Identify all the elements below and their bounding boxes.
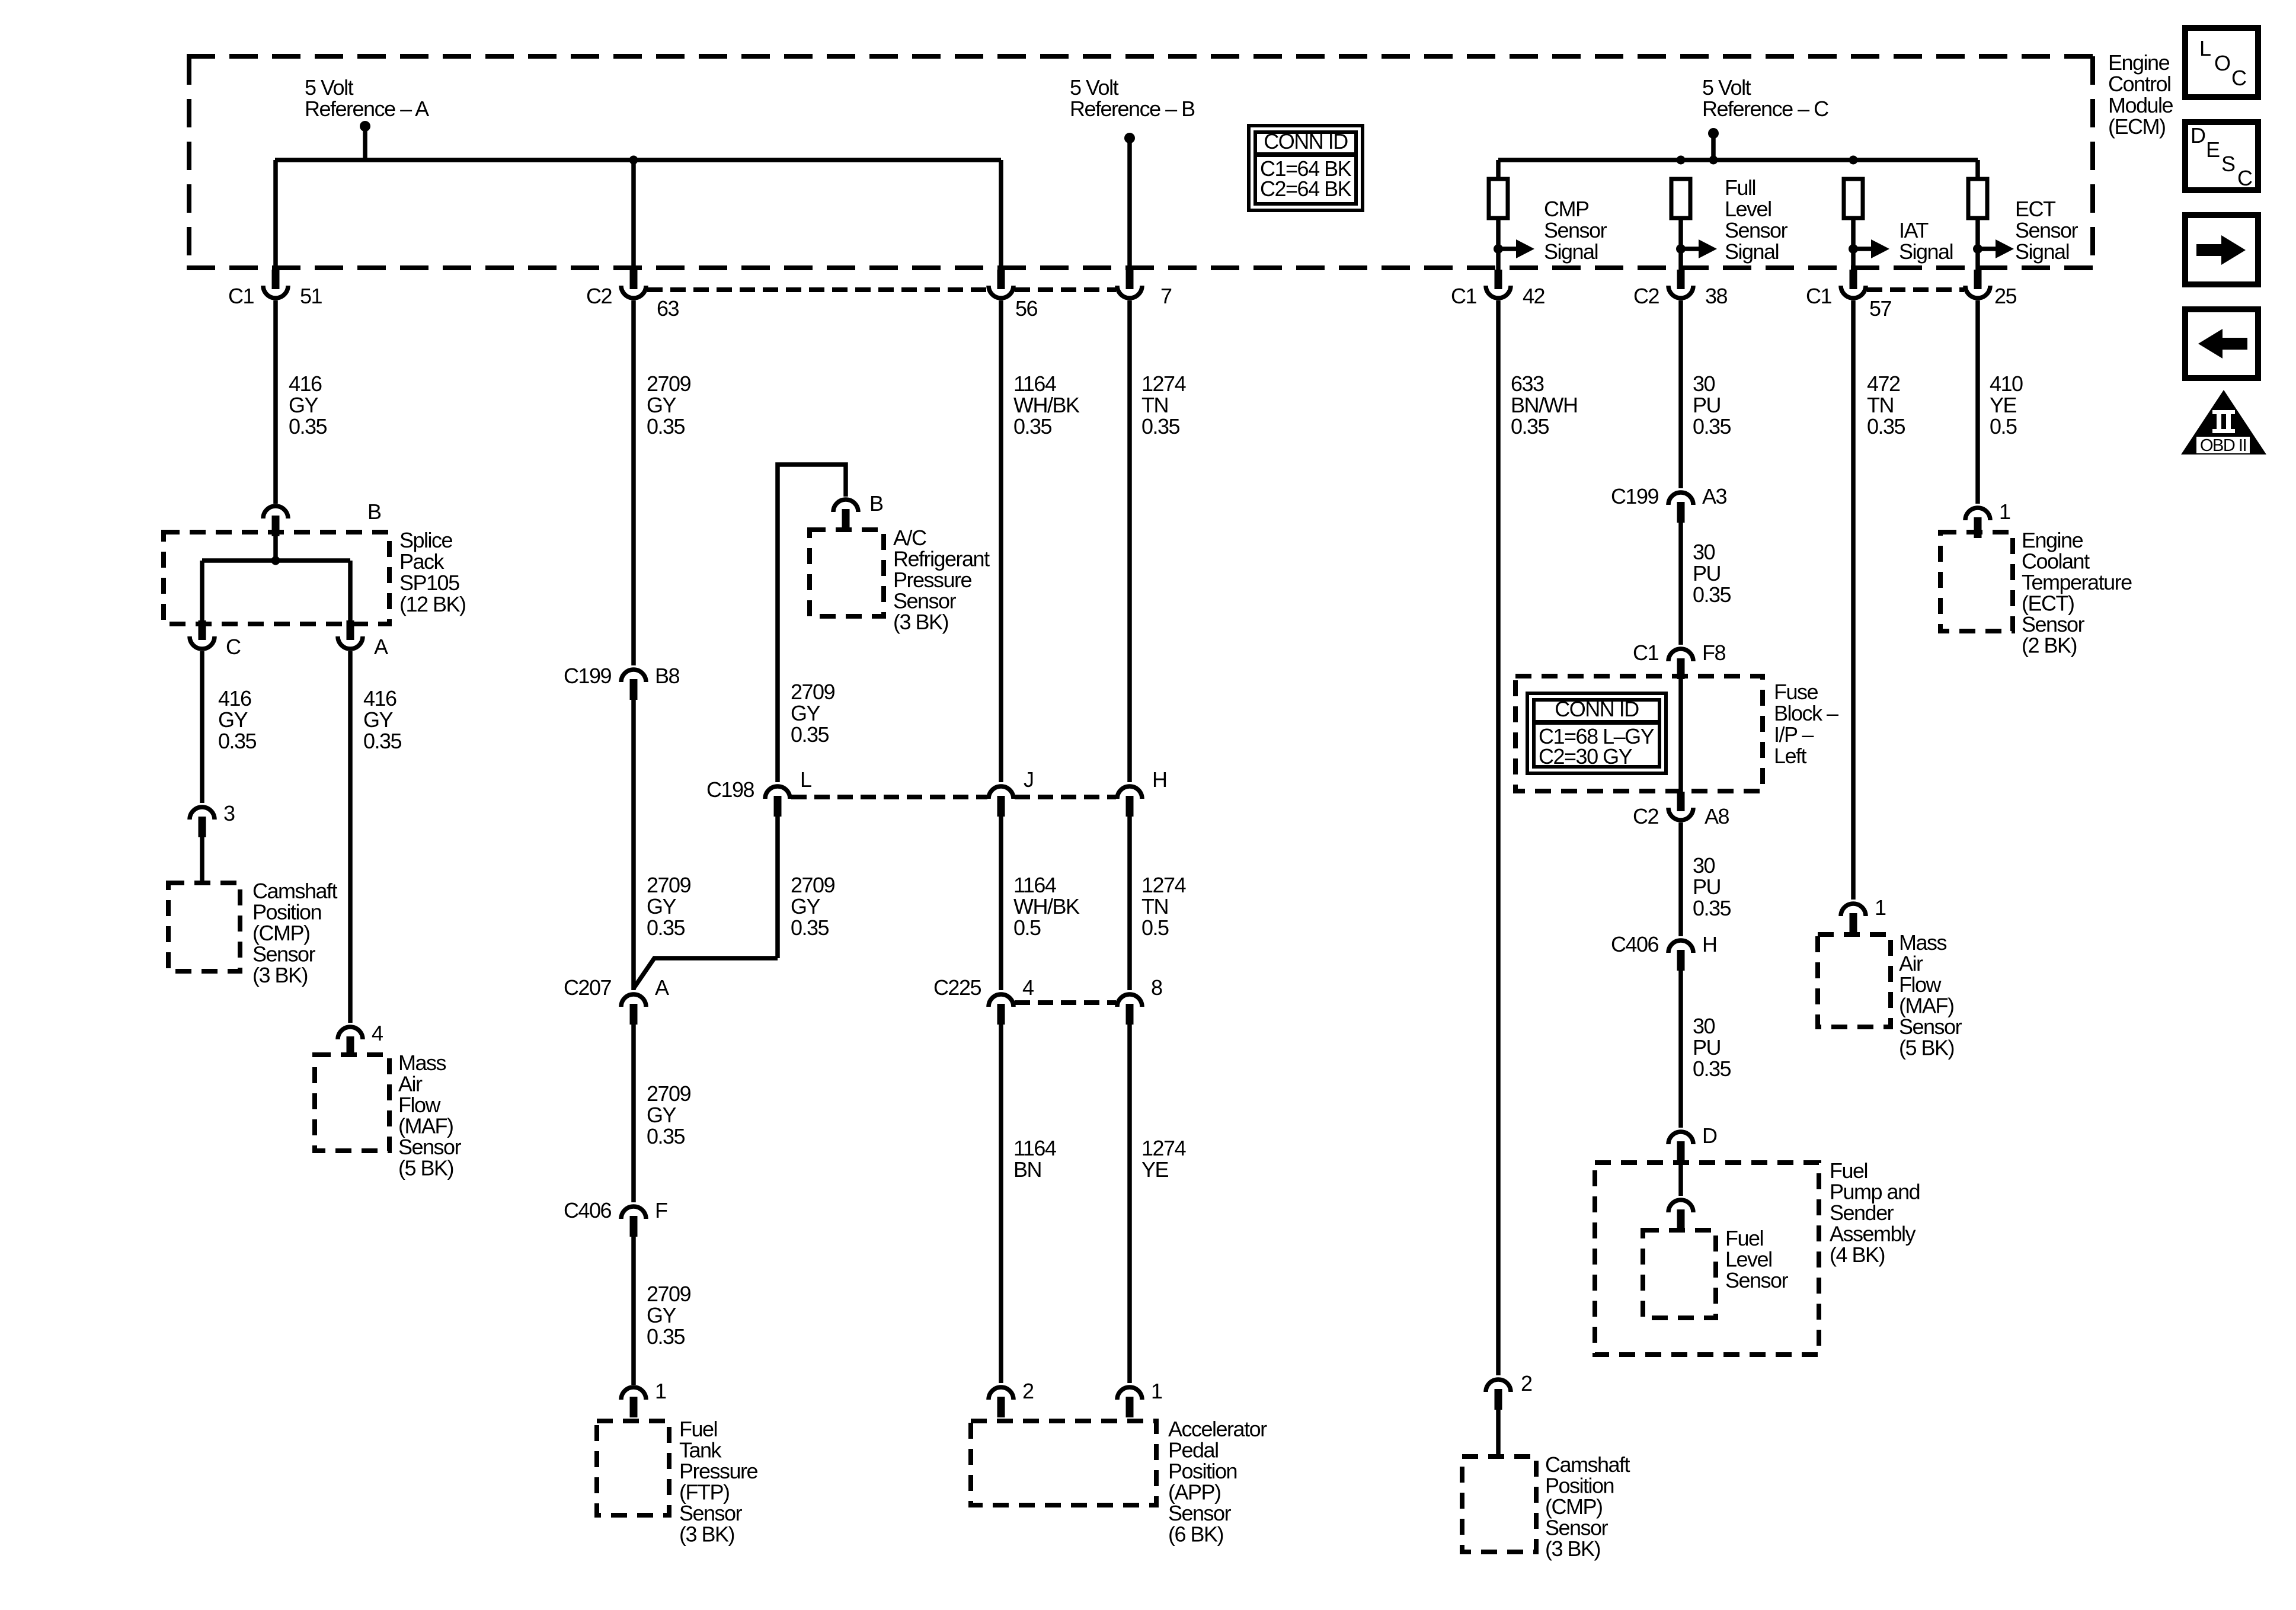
svg-text:Reference – A: Reference – A — [305, 97, 429, 121]
svg-text:C406: C406 — [564, 1198, 612, 1222]
svg-text:0.35: 0.35 — [1511, 414, 1549, 438]
svg-text:A3: A3 — [1702, 484, 1727, 508]
svg-text:C199: C199 — [564, 664, 612, 688]
svg-text:30: 30 — [1693, 1014, 1715, 1038]
svg-text:Full: Full — [1725, 175, 1755, 200]
svg-text:472: 472 — [1867, 372, 1900, 396]
svg-text:IAT: IAT — [1899, 218, 1929, 242]
svg-text:1: 1 — [1151, 1379, 1162, 1403]
svg-text:0.35: 0.35 — [1693, 414, 1731, 438]
svg-text:PU: PU — [1693, 875, 1721, 899]
svg-text:3: 3 — [223, 801, 235, 825]
svg-text:SP105: SP105 — [399, 571, 459, 595]
svg-text:Sensor: Sensor — [1544, 218, 1607, 242]
svg-text:0.35: 0.35 — [647, 916, 685, 940]
svg-text:(3 BK): (3 BK) — [679, 1522, 734, 1547]
svg-text:YE: YE — [1141, 1157, 1169, 1182]
svg-text:0.35: 0.35 — [363, 729, 402, 753]
svg-text:Signal: Signal — [1899, 239, 1953, 264]
svg-text:2709: 2709 — [647, 873, 691, 897]
svg-text:L: L — [800, 767, 811, 792]
svg-text:CMP: CMP — [1544, 197, 1589, 221]
svg-text:1164: 1164 — [1013, 1136, 1056, 1160]
svg-text:C207: C207 — [564, 975, 612, 1000]
svg-text:Splice: Splice — [399, 528, 453, 552]
svg-text:Control: Control — [2108, 72, 2171, 96]
svg-text:0.35: 0.35 — [218, 729, 257, 753]
svg-text:416: 416 — [218, 686, 251, 710]
svg-text:YE: YE — [1990, 393, 2017, 417]
svg-text:Reference – C: Reference – C — [1702, 97, 1828, 121]
svg-text:I/P –: I/P – — [1774, 722, 1814, 747]
svg-text:Module: Module — [2108, 93, 2173, 117]
svg-text:Signal: Signal — [2015, 239, 2069, 264]
svg-text:0.35: 0.35 — [647, 1324, 685, 1349]
svg-text:GY: GY — [647, 1103, 677, 1127]
svg-text:51: 51 — [300, 284, 322, 308]
svg-text:2709: 2709 — [647, 1282, 691, 1306]
svg-text:1: 1 — [1875, 895, 1886, 920]
svg-text:C1: C1 — [1633, 641, 1658, 665]
svg-text:Signal: Signal — [1725, 239, 1779, 264]
svg-text:C199: C199 — [1611, 484, 1659, 508]
svg-text:56: 56 — [1015, 296, 1038, 321]
svg-text:C2: C2 — [586, 284, 612, 308]
svg-text:Pack: Pack — [399, 549, 445, 574]
svg-text:8: 8 — [1151, 975, 1162, 1000]
svg-text:GY: GY — [647, 393, 677, 417]
svg-text:(3 BK): (3 BK) — [1545, 1537, 1600, 1561]
svg-text:A8: A8 — [1705, 804, 1729, 828]
svg-text:GY: GY — [791, 894, 821, 918]
svg-text:0.35: 0.35 — [791, 916, 829, 940]
svg-text:C2: C2 — [1633, 804, 1658, 828]
svg-text:Level: Level — [1725, 197, 1771, 221]
svg-text:H: H — [1702, 932, 1717, 956]
svg-text:25: 25 — [1994, 284, 2017, 308]
svg-text:D: D — [2191, 123, 2205, 148]
svg-text:GY: GY — [289, 393, 319, 417]
svg-text:0.35: 0.35 — [289, 414, 327, 438]
svg-text:J: J — [1024, 767, 1034, 792]
svg-text:PU: PU — [1693, 1035, 1721, 1060]
svg-text:0.35: 0.35 — [1693, 582, 1731, 607]
svg-text:633: 633 — [1511, 372, 1544, 396]
svg-text:C: C — [2237, 166, 2252, 190]
svg-text:2709: 2709 — [791, 873, 835, 897]
svg-text:OBD II: OBD II — [2200, 436, 2246, 455]
svg-text:TN: TN — [1141, 393, 1168, 417]
svg-text:2: 2 — [1022, 1379, 1034, 1403]
svg-text:B: B — [367, 500, 381, 524]
svg-text:(3 BK): (3 BK) — [893, 610, 948, 634]
svg-text:GY: GY — [647, 894, 677, 918]
svg-text:30: 30 — [1693, 372, 1715, 396]
svg-text:BN: BN — [1013, 1157, 1041, 1182]
svg-text:0.5: 0.5 — [1990, 414, 2017, 438]
svg-text:410: 410 — [1990, 372, 2023, 396]
svg-text:A: A — [374, 635, 388, 659]
svg-text:1164: 1164 — [1013, 873, 1056, 897]
svg-text:C: C — [2231, 66, 2246, 90]
svg-text:5 Volt: 5 Volt — [305, 75, 354, 100]
svg-text:2709: 2709 — [647, 1081, 691, 1106]
svg-text:7: 7 — [1160, 284, 1172, 308]
svg-text:(5 BK): (5 BK) — [398, 1156, 453, 1180]
svg-text:4: 4 — [1022, 975, 1034, 1000]
svg-text:GY: GY — [218, 708, 248, 732]
svg-text:B8: B8 — [655, 664, 680, 688]
svg-text:(4 BK): (4 BK) — [1830, 1243, 1885, 1267]
svg-text:0.35: 0.35 — [1693, 896, 1731, 920]
svg-text:(12 BK): (12 BK) — [399, 592, 466, 616]
svg-text:Sensor: Sensor — [1725, 1268, 1789, 1292]
svg-text:F: F — [655, 1198, 667, 1222]
svg-text:CONN ID: CONN ID — [1264, 129, 1348, 153]
svg-text:0.5: 0.5 — [1013, 916, 1041, 940]
svg-text:O: O — [2214, 51, 2230, 75]
svg-text:TN: TN — [1141, 894, 1168, 918]
svg-text:(5 BK): (5 BK) — [1899, 1036, 1954, 1060]
svg-text:L: L — [2199, 36, 2211, 60]
svg-text:0.35: 0.35 — [1013, 414, 1052, 438]
svg-text:0.5: 0.5 — [1141, 916, 1169, 940]
svg-text:0.35: 0.35 — [1867, 414, 1905, 438]
svg-text:C2=30 GY: C2=30 GY — [1539, 744, 1633, 769]
svg-text:Sensor: Sensor — [2015, 218, 2078, 242]
svg-text:C1: C1 — [228, 284, 254, 308]
svg-text:38: 38 — [1705, 284, 1728, 308]
svg-text:Fuse: Fuse — [1774, 680, 1818, 704]
svg-text:C225: C225 — [933, 975, 981, 1000]
svg-text:Reference – B: Reference – B — [1070, 97, 1195, 121]
svg-text:416: 416 — [289, 372, 322, 396]
svg-text:Left: Left — [1774, 744, 1807, 768]
svg-text:Signal: Signal — [1544, 239, 1598, 264]
svg-text:1: 1 — [655, 1379, 666, 1403]
svg-text:30: 30 — [1693, 853, 1715, 878]
svg-text:CONN ID: CONN ID — [1555, 697, 1639, 721]
svg-text:(ECM): (ECM) — [2108, 114, 2165, 139]
svg-text:57: 57 — [1869, 296, 1892, 321]
svg-text:BN/WH: BN/WH — [1511, 393, 1578, 417]
svg-text:S: S — [2221, 152, 2235, 176]
svg-text:Block –: Block – — [1774, 701, 1838, 725]
svg-text:0.35: 0.35 — [1693, 1057, 1731, 1081]
svg-text:0.35: 0.35 — [791, 722, 829, 747]
svg-text:1274: 1274 — [1141, 372, 1186, 396]
svg-text:GY: GY — [791, 701, 821, 725]
svg-text:H: H — [1152, 767, 1167, 792]
svg-text:2709: 2709 — [647, 372, 691, 396]
svg-text:0.35: 0.35 — [647, 414, 685, 438]
svg-text:C: C — [226, 635, 241, 659]
svg-text:42: 42 — [1523, 284, 1545, 308]
svg-text:5 Volt: 5 Volt — [1702, 75, 1751, 100]
svg-text:C1: C1 — [1451, 284, 1476, 308]
svg-text:F8: F8 — [1702, 641, 1725, 665]
svg-text:C406: C406 — [1611, 932, 1659, 956]
svg-text:1274: 1274 — [1141, 1136, 1186, 1160]
svg-text:416: 416 — [363, 686, 396, 710]
svg-text:C2: C2 — [1633, 284, 1659, 308]
svg-text:C2=64 BK: C2=64 BK — [1260, 177, 1352, 201]
svg-text:(2 BK): (2 BK) — [2022, 633, 2077, 658]
svg-text:4: 4 — [372, 1021, 383, 1045]
svg-text:A: A — [655, 975, 669, 1000]
svg-text:63: 63 — [657, 296, 679, 321]
svg-text:1: 1 — [1999, 500, 2010, 524]
svg-text:C198: C198 — [706, 777, 754, 802]
svg-text:B: B — [869, 491, 883, 516]
svg-text:0.35: 0.35 — [1141, 414, 1180, 438]
svg-text:WH/BK: WH/BK — [1013, 393, 1080, 417]
svg-text:GY: GY — [363, 708, 394, 732]
svg-text:D: D — [1702, 1124, 1717, 1148]
svg-text:0.35: 0.35 — [647, 1124, 685, 1148]
svg-text:(6 BK): (6 BK) — [1168, 1522, 1223, 1547]
svg-text:Sensor: Sensor — [1725, 218, 1788, 242]
svg-text:1274: 1274 — [1141, 873, 1186, 897]
svg-text:5 Volt: 5 Volt — [1070, 75, 1119, 100]
svg-text:1164: 1164 — [1013, 372, 1056, 396]
svg-text:WH/BK: WH/BK — [1013, 894, 1080, 918]
svg-text:C1: C1 — [1806, 284, 1831, 308]
svg-text:(3 BK): (3 BK) — [252, 963, 308, 987]
svg-text:PU: PU — [1693, 561, 1721, 585]
svg-text:2: 2 — [1521, 1371, 1532, 1395]
svg-text:E: E — [2206, 137, 2220, 162]
svg-text:PU: PU — [1693, 393, 1721, 417]
svg-text:GY: GY — [647, 1303, 677, 1327]
svg-text:2709: 2709 — [791, 680, 835, 704]
svg-text:TN: TN — [1867, 393, 1894, 417]
svg-text:30: 30 — [1693, 540, 1715, 564]
svg-text:ECT: ECT — [2015, 197, 2056, 221]
svg-text:Engine: Engine — [2108, 50, 2170, 75]
